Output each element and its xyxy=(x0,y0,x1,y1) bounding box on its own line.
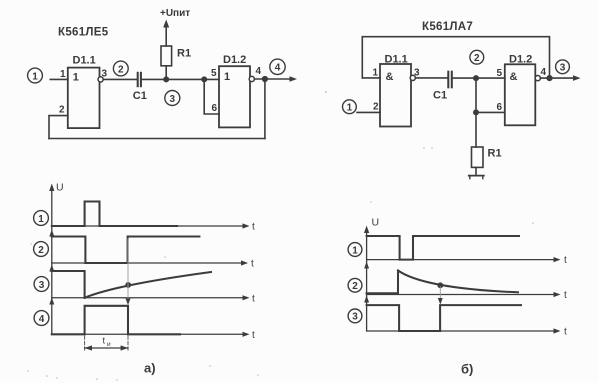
wire input to pin 2 xyxy=(357,111,380,113)
gate D1.2 (NOR element) xyxy=(219,54,250,127)
svg-text:C1: C1 xyxy=(433,90,447,102)
trace 4 ref circle xyxy=(34,311,49,326)
svg-text:5: 5 xyxy=(211,68,217,79)
mini axis arrow trace2 (right) xyxy=(364,262,369,269)
junction dot at R1/C1 xyxy=(163,76,169,82)
svg-text:t: t xyxy=(564,255,567,266)
svg-text:5: 5 xyxy=(496,68,502,79)
svg-text:4: 4 xyxy=(39,314,45,325)
svg-text:&: & xyxy=(386,71,394,83)
junction dot pin6 branch xyxy=(473,109,479,115)
wire feedback top run xyxy=(362,37,549,78)
svg-text:1: 1 xyxy=(347,102,353,113)
svg-text:D1.2: D1.2 xyxy=(223,54,246,66)
svg-text:2: 2 xyxy=(474,53,480,64)
mini axis arrow trace3 (right) xyxy=(364,296,369,303)
node 1 (input terminal circle) xyxy=(28,68,43,83)
node 1 (input circle) xyxy=(343,100,357,114)
svg-text:3: 3 xyxy=(352,312,358,323)
svg-text:1: 1 xyxy=(352,245,358,256)
svg-text:6: 6 xyxy=(211,103,217,114)
gate D1.1 (NAND element) xyxy=(380,54,411,127)
wire node 3 to D1.2 pin 5 xyxy=(166,78,219,80)
svg-text:2: 2 xyxy=(352,281,358,292)
t axis 3 (right) xyxy=(367,330,557,332)
capacitor C1 (right) xyxy=(433,72,452,102)
svg-text:C1: C1 xyxy=(133,90,147,102)
wire output with arrow xyxy=(540,77,576,79)
wire feedback bottom run xyxy=(49,138,265,140)
dashed extension at pulse start xyxy=(84,336,86,351)
U axis (left diagram) xyxy=(51,188,53,334)
junction dot at output xyxy=(262,76,268,82)
down arrowhead onto trace 3 (right) xyxy=(438,298,443,305)
trace 2 ref circle xyxy=(34,242,49,257)
svg-text:t: t xyxy=(103,336,106,347)
svg-text:t: t xyxy=(251,259,254,270)
svg-text:3: 3 xyxy=(39,280,45,291)
paper speckles xyxy=(27,91,534,381)
svg-text:1: 1 xyxy=(32,71,38,82)
svg-text:R1: R1 xyxy=(177,48,191,60)
node 4 (circle marker) xyxy=(270,59,285,74)
svg-text:и: и xyxy=(107,341,111,348)
waveform 1: inverted input pulse xyxy=(367,236,519,260)
svg-text:+Uпит: +Uпит xyxy=(160,8,190,19)
svg-text:3: 3 xyxy=(560,63,566,74)
svg-text:3: 3 xyxy=(170,94,176,105)
wire junction to R1 xyxy=(165,66,167,80)
t axis 3 (left) xyxy=(52,297,246,299)
supply arrowhead xyxy=(163,20,169,28)
waveform 4: output pulse xyxy=(52,306,180,335)
t axis 2 (right) xyxy=(367,294,557,296)
wire C1 to node 2 junction xyxy=(453,77,476,79)
wire C1 to node 3 junction xyxy=(142,78,166,80)
trace 1 ref circle (right) xyxy=(348,243,362,257)
wire input to D1.1 pin 1 xyxy=(50,78,68,80)
node 3 (circle marker) xyxy=(165,91,180,106)
svg-text:R1: R1 xyxy=(488,148,502,160)
svg-text:4: 4 xyxy=(541,67,547,78)
svg-text:2: 2 xyxy=(118,64,124,75)
svg-text:1: 1 xyxy=(224,71,230,83)
U axis (right diagram) xyxy=(366,230,368,331)
trace 3 ref circle (right) xyxy=(348,309,362,323)
svg-text:2: 2 xyxy=(373,102,379,113)
svg-text:t: t xyxy=(252,293,255,304)
trace 1 ref circle xyxy=(34,211,49,226)
trace 3 ref circle xyxy=(34,277,49,292)
node 3 (circle marker) xyxy=(556,60,570,74)
svg-text:а): а) xyxy=(144,361,156,376)
dashed extension at pulse end xyxy=(127,336,129,351)
junction dot pin6 branch xyxy=(201,76,207,82)
waveform 2 step and exponential discharge xyxy=(367,271,398,294)
inverter bubble D1.1 output pin 3 xyxy=(98,77,103,82)
svg-text:D1.1: D1.1 xyxy=(385,54,408,66)
node 2 (circle marker) xyxy=(113,61,128,76)
trace 2 ref circle (right) xyxy=(348,278,362,292)
inverter bubble D1.2 output xyxy=(535,76,540,81)
inverter bubble D1.1 output xyxy=(410,75,415,80)
svg-text:6: 6 xyxy=(496,102,502,113)
threshold dot on curve (right) xyxy=(437,282,443,288)
t axis 4 (left) xyxy=(52,333,246,335)
wire down to pin6 branch xyxy=(475,78,477,112)
wire output with arrow xyxy=(254,78,293,80)
svg-text:4: 4 xyxy=(256,66,262,77)
waveform 3 exponential charge curve xyxy=(85,272,211,298)
svg-text:4: 4 xyxy=(275,63,281,74)
mini axis arrow trace3 xyxy=(49,265,54,272)
t axis 1 (right) xyxy=(367,259,557,261)
thin construction line at threshold xyxy=(127,239,129,300)
thin construction line at threshold (right) xyxy=(439,287,441,300)
waveform 1: input pulse xyxy=(52,202,177,227)
wire feedback vertical from output xyxy=(264,79,266,139)
wire R1 to ground xyxy=(475,167,477,175)
wire pin 3 to C1 xyxy=(415,77,447,79)
svg-text:D1.1: D1.1 xyxy=(73,55,96,67)
threshold dot on curve xyxy=(125,282,131,288)
pulse width measure arrows xyxy=(85,336,128,351)
t axis 2 (left) xyxy=(52,262,244,264)
svg-text:U: U xyxy=(372,217,380,229)
wire R1 to +U supply xyxy=(165,26,167,46)
waveform 2 xyxy=(52,237,200,264)
junction dot at C1 output xyxy=(473,75,479,81)
wire node 2 to pin 5 xyxy=(476,77,505,79)
mini axis arrow trace2 xyxy=(49,230,54,237)
svg-text:t: t xyxy=(564,327,567,338)
svg-text:3: 3 xyxy=(102,69,108,80)
junction dot at output xyxy=(546,75,552,81)
node 2 (circle marker) xyxy=(470,50,484,64)
svg-text:1: 1 xyxy=(372,68,378,79)
wire branch to pin 6 xyxy=(204,79,219,114)
svg-text:D1.2: D1.2 xyxy=(509,54,532,66)
svg-text:t: t xyxy=(252,330,255,341)
waveform 3 step xyxy=(52,271,85,298)
svg-text:2: 2 xyxy=(59,105,65,116)
gate D1.2 (NAND element) xyxy=(505,54,536,126)
svg-text:1: 1 xyxy=(73,72,79,84)
inverter bubble D1.2 output pin 4 xyxy=(249,76,254,81)
svg-text:К561ЛА7: К561ЛА7 xyxy=(422,21,473,33)
waveform 3: output pulse (right) xyxy=(367,305,521,331)
wire into pin 1 xyxy=(362,77,380,79)
svg-text:U: U xyxy=(56,182,64,194)
mini axis arrow trace4 xyxy=(49,298,54,305)
wire down to R1 xyxy=(475,112,477,147)
svg-text:&: & xyxy=(510,71,518,83)
svg-text:1: 1 xyxy=(38,214,44,225)
svg-text:t: t xyxy=(564,290,567,301)
resistor R1 xyxy=(161,46,191,66)
down arrowhead onto trace 4 xyxy=(126,299,131,306)
wire feedback into pin 2 xyxy=(49,116,68,139)
t axis 1 (left) xyxy=(52,225,246,227)
svg-text:3: 3 xyxy=(414,68,420,79)
ground symbol xyxy=(469,176,484,179)
resistor R1 (right) xyxy=(472,147,502,167)
svg-text:б): б) xyxy=(461,362,473,377)
wire branch to pin 6 xyxy=(476,111,505,113)
capacitor C1 xyxy=(133,73,147,102)
wire pin 3 to C1 xyxy=(103,78,136,80)
svg-text:t: t xyxy=(252,222,255,233)
svg-text:1: 1 xyxy=(60,69,66,80)
svg-text:К561ЛЕ5: К561ЛЕ5 xyxy=(58,27,109,39)
gate U D1.1 (NOR element) xyxy=(68,55,100,129)
svg-text:2: 2 xyxy=(38,245,44,256)
